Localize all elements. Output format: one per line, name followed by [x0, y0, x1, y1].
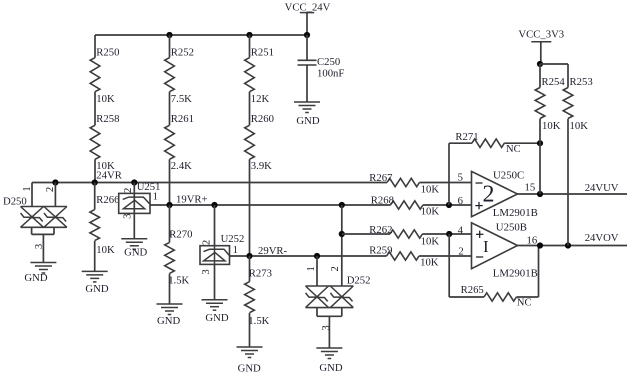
svg-text:2: 2: [44, 187, 56, 192]
svg-text:I: I: [483, 237, 489, 256]
svg-text:10K: 10K: [420, 256, 439, 268]
op-amp U250C LM2901B: [472, 171, 518, 216]
junction VCC_3V3 split: [537, 61, 543, 67]
resistor R265 NC: [461, 284, 532, 309]
svg-text:100nF: 100nF: [317, 68, 344, 80]
svg-text:GND: GND: [205, 312, 228, 324]
wire R252 to R261: [169, 92, 171, 126]
wire VCC rail to R250: [94, 35, 96, 58]
junction VCC_24V rail: [304, 32, 310, 38]
svg-text:VCC_3V3: VCC_3V3: [518, 29, 564, 41]
resistor R253 10K: [563, 76, 592, 132]
wire pullup node to U250C output: [539, 143, 541, 194]
ground GND for U251: [121, 239, 147, 250]
resistor R260 3.9K: [245, 113, 274, 172]
svg-text:NC: NC: [517, 298, 532, 309]
wire 19VR+ to R270: [169, 205, 171, 242]
svg-text:12K: 12K: [251, 93, 270, 105]
shunt reference U252: [200, 205, 231, 300]
svg-text:2: 2: [458, 246, 463, 258]
wire net 19VR+ horizontal: [150, 204, 391, 206]
svg-text:NC: NC: [506, 144, 521, 155]
junction D252 pin1 on 29VR-: [314, 253, 320, 259]
diode D252 bidirectional TVS: [306, 256, 354, 348]
svg-text:GND: GND: [85, 283, 108, 295]
op-amp U250B LM2901B: [472, 223, 518, 269]
junction R265 tap on pin4 wire: [446, 231, 452, 237]
svg-text:1.5K: 1.5K: [168, 275, 189, 287]
wire R259 to pin2: [419, 255, 472, 257]
svg-text:15: 15: [525, 182, 536, 194]
svg-text:R262: R262: [369, 224, 392, 236]
junction R253 pullup on output: [565, 242, 571, 248]
resistor R251 12K: [245, 47, 274, 106]
junction R260/R273 on 29VR-: [246, 253, 252, 259]
svg-text:R265: R265: [461, 284, 484, 296]
svg-text:R259: R259: [369, 245, 392, 257]
svg-text:R252: R252: [171, 47, 194, 59]
svg-text:10K: 10K: [570, 120, 589, 132]
svg-text:R253: R253: [570, 76, 593, 88]
junction R252 top: [166, 32, 172, 38]
resistor R266 10K: [90, 194, 120, 256]
svg-text:GND: GND: [157, 315, 180, 327]
wire net 24VR horizontal: [32, 182, 387, 184]
svg-text:LM2901B: LM2901B: [493, 207, 538, 219]
svg-text:R260: R260: [251, 113, 274, 125]
shunt reference U251: [119, 183, 151, 239]
junction U251 on 24VR: [131, 179, 137, 185]
ground GND for R273: [237, 347, 263, 358]
svg-text:1: 1: [21, 186, 33, 191]
svg-text:3: 3: [320, 325, 332, 330]
junction D250 pin2 on 24VR: [52, 179, 58, 185]
wire branch down to R253: [567, 64, 569, 88]
wire R266 to GND: [94, 241, 96, 272]
wire R273 to GND: [249, 313, 251, 347]
svg-text:R251: R251: [251, 47, 274, 59]
resistor R259 10K: [369, 245, 438, 269]
ground GND for R270: [157, 304, 183, 315]
ground GND for C250: [294, 102, 320, 113]
wire R271 to pullup node: [504, 142, 540, 144]
svg-text:R250: R250: [96, 47, 119, 59]
svg-text:C250: C250: [317, 56, 340, 68]
wire VCC_3V3 branch to R253: [540, 63, 568, 65]
resistor R270 1.5K: [165, 229, 193, 287]
svg-text:5: 5: [458, 172, 463, 184]
svg-text:U252: U252: [221, 233, 245, 245]
svg-text:6: 6: [458, 195, 464, 207]
wire VCC_3V3 to R254: [539, 64, 541, 88]
wire R271 left vertical to pin6 node: [448, 143, 450, 205]
power VCC_24V: [285, 2, 331, 36]
svg-text:3.9K: 3.9K: [251, 160, 272, 172]
svg-text:1: 1: [305, 266, 317, 271]
svg-text:R254: R254: [542, 76, 566, 88]
svg-text:1.5K: 1.5K: [248, 315, 269, 327]
junction R251 top: [246, 32, 252, 38]
wire U250C output to 24VUV: [518, 193, 628, 195]
svg-text:R258: R258: [96, 113, 119, 125]
svg-text:LM2901B: LM2901B: [493, 268, 538, 280]
svg-text:R268: R268: [371, 194, 394, 206]
svg-text:29VR-: 29VR-: [258, 245, 288, 257]
wire R267 to pin5: [419, 182, 471, 184]
svg-text:2: 2: [483, 181, 495, 207]
svg-text:GND: GND: [238, 362, 261, 374]
resistor R271 NC: [455, 131, 520, 155]
wire R250 to R258: [94, 92, 96, 126]
svg-text:10K: 10K: [96, 244, 115, 256]
junction R254 pullup on output: [537, 191, 543, 197]
wire R260 down to 29VR- node: [249, 159, 251, 256]
svg-text:10K: 10K: [421, 236, 440, 248]
svg-text:GND: GND: [124, 246, 147, 258]
svg-text:R267: R267: [369, 172, 393, 184]
svg-text:R270: R270: [169, 229, 192, 241]
svg-text:19VR+: 19VR+: [176, 194, 208, 206]
svg-text:GND: GND: [296, 115, 319, 127]
wire R258 to 24VR rail: [94, 159, 96, 182]
diode D250 bidirectional TVS: [21, 183, 67, 263]
svg-text:3: 3: [121, 214, 133, 219]
wire R268 to pin6: [423, 204, 472, 206]
wire U250B output to 24VOV: [518, 245, 628, 247]
capacitor C250 100nF: [298, 35, 345, 102]
svg-text:10K: 10K: [421, 183, 440, 195]
svg-text:R271: R271: [455, 131, 478, 143]
junction U252 on 19VR+: [211, 202, 217, 208]
svg-text:R266: R266: [96, 194, 120, 206]
junction R262 tap: [339, 231, 345, 237]
wire R270 to GND: [169, 274, 171, 304]
power VCC_3V3: [518, 29, 564, 65]
wire R265 right vertical to output: [538, 246, 540, 298]
ground GND for D252: [316, 348, 342, 359]
svg-text:2: 2: [329, 266, 341, 271]
junction R271/R254: [537, 140, 543, 146]
wire 19VR+ tap down to D252 pin2: [341, 205, 343, 286]
resistor R254 10K: [535, 76, 565, 132]
svg-text:1: 1: [153, 190, 158, 202]
svg-text:2: 2: [201, 240, 213, 245]
svg-text:3: 3: [33, 244, 45, 249]
svg-text:1: 1: [233, 244, 238, 256]
wire top rail VCC_24V: [95, 34, 307, 36]
svg-text:R261: R261: [171, 113, 194, 125]
wire 29VR- to R273: [249, 256, 251, 282]
wire tap to R262: [342, 233, 390, 235]
wire R254 to R271 node: [539, 119, 541, 144]
svg-text:10K: 10K: [542, 120, 561, 132]
wire R251 to R260: [249, 92, 251, 126]
wire R265 right segment: [516, 296, 538, 298]
junction vertical tap on 19VR+: [339, 202, 345, 208]
resistor R258 10K: [90, 113, 119, 172]
wire net 29VR- horizontal: [230, 255, 387, 257]
resistor R261 2.4K: [165, 113, 194, 172]
svg-text:D250: D250: [3, 196, 27, 208]
svg-text:VCC_24V: VCC_24V: [285, 2, 331, 14]
junction R261/R270 on 19VR+: [166, 202, 172, 208]
svg-text:R273: R273: [249, 268, 272, 280]
wire R253 to U250B output: [567, 119, 569, 246]
svg-text:24VOV: 24VOV: [585, 232, 619, 244]
resistor R273 1.5K: [245, 268, 272, 328]
svg-text:2: 2: [122, 188, 134, 193]
ground GND for U252: [202, 300, 228, 311]
svg-text:U250B: U250B: [496, 221, 527, 233]
ground GND for D250: [30, 263, 56, 274]
junction R265 vertical on output: [537, 242, 543, 248]
resistor R250 10K: [90, 47, 119, 106]
resistor R267 10K: [369, 172, 439, 196]
wire R271 left segment: [449, 142, 472, 144]
svg-text:U250C: U250C: [493, 170, 524, 182]
wire R262 to pin4: [422, 233, 471, 235]
wire VCC rail to R252: [169, 35, 171, 58]
resistor R252 7.5K: [165, 47, 194, 106]
junction R258/R266 on 24VR: [92, 179, 98, 185]
svg-text:3: 3: [200, 269, 212, 274]
resistor R262 10K: [369, 224, 439, 248]
svg-text:GND: GND: [319, 362, 342, 374]
svg-text:GND: GND: [24, 272, 47, 284]
svg-text:2.4K: 2.4K: [171, 160, 192, 172]
svg-text:D252: D252: [347, 275, 371, 287]
wire VCC rail to R251: [249, 35, 251, 58]
svg-text:10K: 10K: [421, 206, 440, 218]
wire 24VR to R266: [94, 183, 96, 210]
ground GND for R266: [82, 271, 108, 282]
svg-text:4: 4: [458, 224, 464, 236]
svg-text:10K: 10K: [96, 93, 115, 105]
junction R271 tap on pin6 wire: [446, 202, 452, 208]
svg-text:7.5K: 7.5K: [171, 93, 192, 105]
wire R265 left vertical to pin4 node: [448, 234, 450, 297]
svg-text:24VUV: 24VUV: [585, 182, 619, 194]
svg-text:24VR: 24VR: [96, 170, 122, 182]
wire R261 to 19VR+ node: [169, 159, 171, 205]
wire R265 left segment: [449, 296, 484, 298]
resistor R268 10K: [371, 194, 440, 217]
